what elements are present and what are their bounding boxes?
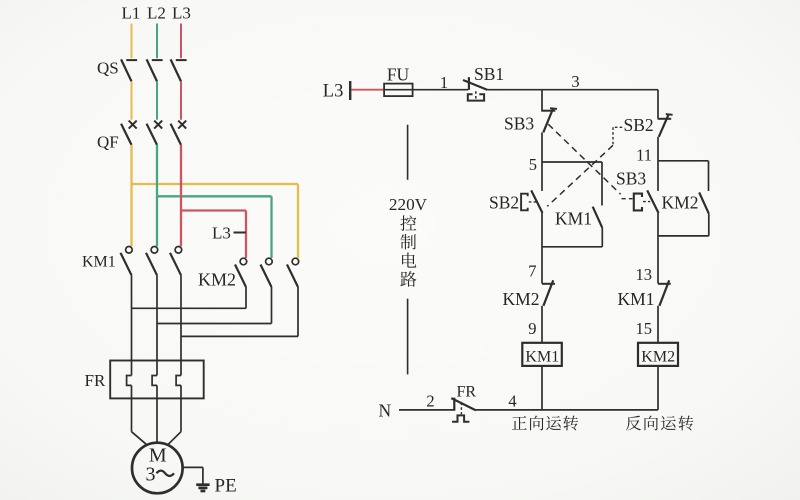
svg-text:KM2: KM2 — [198, 270, 236, 290]
svg-text:SB1: SB1 — [474, 64, 504, 84]
svg-text:2: 2 — [426, 392, 434, 411]
svg-text:11: 11 — [636, 146, 652, 165]
svg-text:L3: L3 — [172, 4, 191, 23]
svg-text:L3: L3 — [323, 82, 344, 102]
svg-text:L1: L1 — [122, 4, 141, 23]
svg-text:5: 5 — [529, 155, 537, 174]
svg-text:N: N — [379, 400, 392, 420]
svg-text:SB3: SB3 — [616, 169, 646, 189]
svg-text:220V: 220V — [389, 195, 428, 214]
svg-text:KM2: KM2 — [641, 349, 675, 366]
svg-text:FU: FU — [387, 65, 410, 85]
svg-text:KM2: KM2 — [662, 193, 699, 213]
svg-text:L3: L3 — [212, 224, 231, 243]
svg-text:KM2: KM2 — [503, 289, 540, 309]
svg-text:15: 15 — [636, 319, 653, 338]
svg-text:L2: L2 — [147, 4, 166, 23]
svg-text:KM1: KM1 — [525, 349, 559, 366]
svg-text:FR: FR — [457, 384, 477, 401]
svg-text:7: 7 — [528, 262, 536, 281]
svg-text:QS: QS — [97, 59, 119, 78]
svg-text:1: 1 — [440, 73, 448, 92]
svg-text:KM1: KM1 — [82, 254, 116, 271]
svg-text:KM1: KM1 — [555, 209, 592, 229]
svg-text:SB3: SB3 — [504, 114, 534, 134]
svg-text:QF: QF — [97, 133, 119, 152]
svg-text:SB2: SB2 — [489, 193, 519, 213]
svg-text:3: 3 — [571, 72, 579, 91]
svg-text:13: 13 — [636, 265, 653, 284]
svg-text:3: 3 — [146, 464, 156, 486]
svg-text:4: 4 — [508, 392, 516, 411]
svg-text:9: 9 — [528, 319, 536, 338]
svg-text:SB2: SB2 — [624, 115, 654, 135]
svg-text:FR: FR — [85, 371, 106, 390]
svg-text:PE: PE — [215, 476, 237, 497]
svg-text:KM1: KM1 — [618, 289, 655, 309]
